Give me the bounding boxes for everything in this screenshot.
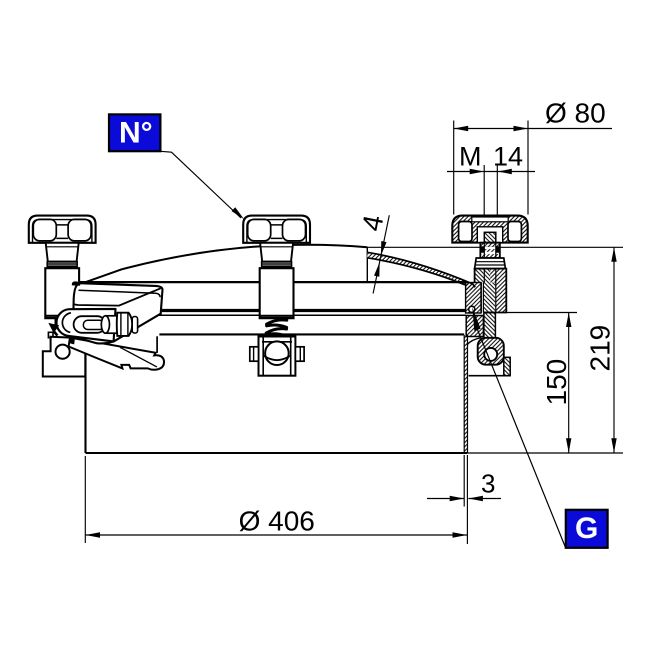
band top line (lid skirt top edge)	[72, 281, 465, 283]
extension line 219 top	[367, 246, 623, 248]
neck right wall section hatched	[464, 335, 467, 453]
swing bolt eye section	[478, 338, 504, 365]
section ribbed collar	[475, 258, 506, 269]
hinge strap with rolled hook	[69, 338, 164, 370]
svg-text:M: M	[459, 142, 482, 172]
flange ring section block	[466, 316, 483, 337]
flange ring bottom line	[159, 333, 464, 335]
hinge pin end ellipse	[101, 316, 109, 333]
body bottom line	[86, 452, 468, 454]
label G box with leader arrow	[472, 307, 607, 548]
svg-text:Ø 80: Ø 80	[545, 97, 606, 128]
spring under right knob	[266, 320, 287, 342]
dim Ø80	[454, 97, 612, 214]
svg-text:G: G	[575, 512, 598, 545]
dim 3 (wall thickness)	[427, 455, 501, 544]
lid skirt bottom thick line (gasket seat)	[62, 309, 465, 312]
lug section bottom line	[469, 375, 511, 377]
gasket section circle	[469, 306, 475, 312]
hinge handle slab	[73, 283, 162, 353]
svg-text:219: 219	[585, 325, 616, 372]
label N° box with leader arrow	[109, 114, 246, 221]
svg-text:N°: N°	[119, 117, 153, 150]
lug pivot pin right tab	[295, 347, 304, 361]
hinge pin hex head	[117, 313, 132, 336]
section nut on threaded rod	[480, 243, 500, 258]
hinge pin barrel	[105, 316, 117, 333]
svg-text:3: 3	[481, 469, 495, 499]
dim Ø406	[85, 456, 467, 543]
svg-text:14: 14	[493, 142, 523, 172]
handle grip cylinder	[57, 309, 116, 342]
wing knob left	[29, 216, 96, 319]
neck left edge	[84, 336, 86, 453]
lid section cut edge vertical	[366, 247, 368, 282]
hinge leaf dark marks	[51, 318, 58, 336]
lid section arc band hatched	[367, 252, 475, 290]
svg-text:Ø 406: Ø 406	[239, 506, 315, 537]
swing bolt rod lower section	[484, 313, 496, 338]
hinge strap edge on dome	[81, 270, 121, 284]
flange ring top line	[62, 314, 466, 316]
hinge leaf lower tab	[70, 338, 75, 344]
lid skirt section block	[466, 283, 481, 314]
wing knob right	[243, 216, 310, 319]
dim M14	[447, 142, 535, 215]
dim 150	[507, 313, 577, 454]
dome lid outer arc	[120, 245, 367, 270]
hinge slab corner nub	[72, 281, 81, 285]
dim 219	[585, 247, 617, 453]
lug section piece	[504, 357, 510, 375]
dim 4 (lid thickness)	[356, 212, 389, 293]
hinge bracket with hole	[43, 332, 86, 376]
lug pivot pin left tab	[250, 347, 259, 361]
section clamp sleeve	[475, 269, 507, 313]
hinge pin tip	[132, 317, 137, 334]
swing bolt lug under right knob	[259, 337, 296, 376]
sectioned wing knob	[452, 216, 527, 243]
svg-text:150: 150	[541, 359, 572, 406]
